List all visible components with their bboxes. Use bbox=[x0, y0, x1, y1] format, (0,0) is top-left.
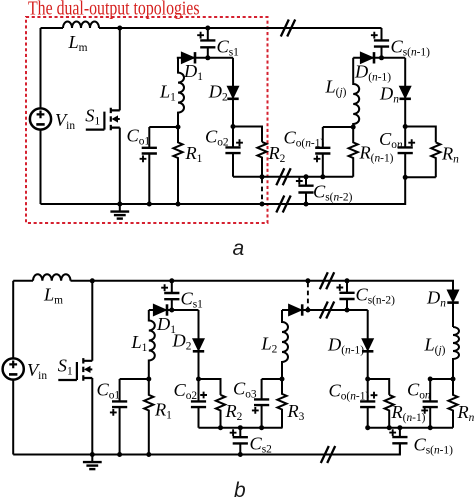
junction dot Co1 bottom a bbox=[147, 202, 152, 207]
junction dot stage n bottom a bbox=[403, 175, 408, 180]
junction dot Cs(n-2) bottom a bbox=[304, 202, 309, 207]
wire D2 top lead b bbox=[198, 310, 200, 339]
svg-text:D(n-1): D(n-1) bbox=[354, 62, 391, 84]
svg-text:D(n-1): D(n-1) bbox=[327, 335, 364, 357]
wire stage n bottom a bbox=[405, 176, 436, 178]
svg-text:b: b bbox=[234, 479, 246, 500]
wire S1 drain b bbox=[91, 281, 93, 361]
capacitor Co2 (b) bbox=[191, 379, 207, 428]
inductor Lm (a) bbox=[63, 22, 99, 28]
svg-text:D2: D2 bbox=[208, 82, 228, 104]
svg-text:Con: Con bbox=[407, 380, 431, 402]
capacitor Co(n-1) (b) bbox=[360, 379, 377, 428]
junction dot R1 bottom a bbox=[176, 202, 181, 207]
svg-text:R1: R1 bbox=[154, 400, 172, 422]
node dot stage2 output a bbox=[231, 124, 236, 129]
diode D(n-1) (a) bbox=[360, 52, 374, 63]
svg-text:The dual-output topologies: The dual-output topologies bbox=[28, 0, 200, 20]
svg-text:S1: S1 bbox=[58, 356, 73, 378]
svg-text:L1: L1 bbox=[131, 332, 148, 354]
wire top rail a (Lm to Cs(n-1) corner) bbox=[99, 27, 382, 29]
inductor L1 (a) bbox=[178, 58, 184, 127]
svg-text:S1: S1 bbox=[85, 106, 100, 128]
diode D1 (b) bbox=[153, 304, 167, 315]
capacitor Cs(n-1) (b) bbox=[389, 428, 407, 455]
junction dot Cs(n-2) bottom b bbox=[345, 308, 350, 313]
resistor R1 (a) bbox=[173, 127, 182, 204]
capacitor Co3 (b) bbox=[252, 379, 269, 428]
wire top rail b (Lm to Dn corner) bbox=[71, 281, 454, 290]
svg-text:Co(n-1): Co(n-1) bbox=[329, 381, 370, 403]
capacitor Cs2 (b) bbox=[230, 428, 248, 455]
capacitor Cs(n-1) (a) bbox=[371, 28, 389, 58]
svg-text:D1: D1 bbox=[183, 61, 203, 83]
diode D1 (a) bbox=[181, 52, 195, 63]
svg-text:Vin: Vin bbox=[55, 110, 75, 132]
svg-text:Co1: Co1 bbox=[97, 380, 121, 402]
diode D2 (b) bbox=[193, 339, 204, 352]
wire node1 to Co1 a bbox=[149, 126, 178, 128]
break symbol on bottom rail a bbox=[276, 196, 290, 213]
node dot stage1 output b bbox=[146, 377, 151, 382]
wire diode row stage3 b bbox=[282, 309, 368, 311]
node dot stage1 output a bbox=[176, 125, 181, 130]
svg-text:Lm: Lm bbox=[68, 32, 88, 54]
resistor R3 (b) bbox=[277, 379, 286, 428]
svg-text:R(n-1): R(n-1) bbox=[391, 402, 426, 424]
wire node(n-1) to Co(n-1) a bbox=[323, 126, 353, 128]
junction dot Cs(n-1) top b bbox=[397, 425, 402, 430]
capacitor Cs1 (b) bbox=[161, 281, 179, 310]
junction dot Con top b bbox=[428, 377, 433, 382]
diode D2 (a) bbox=[227, 86, 238, 99]
resistor Rn (b) bbox=[448, 379, 457, 428]
svg-text:Cs(n-1): Cs(n-1) bbox=[391, 37, 431, 59]
wire top rail a (Vin+ to Lm) bbox=[41, 27, 64, 29]
svg-text:R1: R1 bbox=[185, 143, 203, 165]
junction dot stage3 row b bbox=[305, 308, 310, 313]
junction dot R2 bottom a bbox=[260, 174, 265, 179]
wire Vin bottom lead a bbox=[40, 130, 42, 204]
resistor R(n-1) (a) bbox=[349, 127, 358, 177]
node dot Cs1 junction b bbox=[169, 278, 174, 283]
red dashed boundary box of the dual-output topologies bbox=[26, 17, 268, 223]
node dot stage n output b bbox=[451, 377, 456, 382]
svg-text:Cs1: Cs1 bbox=[181, 289, 204, 311]
wire node2 to R2 b bbox=[199, 379, 221, 395]
wire D(n-1) top lead b bbox=[367, 310, 369, 339]
svg-text:L2: L2 bbox=[261, 334, 278, 356]
svg-text:Co1: Co1 bbox=[127, 126, 151, 148]
ground symbol b bbox=[83, 455, 102, 470]
capacitor Cs(n-2) (a) bbox=[296, 177, 314, 204]
junction dot Co(n-1) bottom a bbox=[320, 174, 325, 179]
junction dot Cs(n-1) bottom a bbox=[379, 55, 384, 60]
svg-text:Co2: Co2 bbox=[205, 127, 229, 149]
wire node1 to Co1 b bbox=[120, 378, 149, 380]
break symbol on stage3 row b bbox=[320, 302, 334, 319]
node dot stage n output a bbox=[403, 124, 408, 129]
svg-text:L(j): L(j) bbox=[325, 77, 347, 99]
resistor R(n-1) (b) bbox=[385, 395, 394, 428]
wire Vin top lead b bbox=[12, 281, 14, 359]
ground symbol a bbox=[110, 204, 129, 219]
dashed link wire b bbox=[307, 283, 309, 309]
inductor L1 (b) bbox=[149, 310, 155, 379]
capacitor Co1 (b) bbox=[110, 379, 127, 455]
voltage source Vin (a) bbox=[30, 108, 51, 129]
junction dot Cs1 bottom b bbox=[169, 308, 174, 313]
capacitor Co1 (a) bbox=[140, 127, 157, 204]
svg-text:L1: L1 bbox=[159, 82, 176, 104]
break symbol on top rail b bbox=[320, 272, 334, 289]
node dot stage n-1 output a bbox=[351, 125, 356, 130]
junction dot Co(n-1) bottom b bbox=[365, 425, 370, 430]
svg-text:a: a bbox=[233, 237, 245, 260]
node dot stage3 output b bbox=[280, 377, 285, 382]
junction dot Cs2 bottom b bbox=[238, 452, 243, 457]
wire diode row stage1 b bbox=[149, 309, 199, 311]
wire stage n-1/n bottom b bbox=[368, 427, 453, 429]
capacitor Co2 (a) bbox=[225, 127, 243, 177]
svg-text:Dn: Dn bbox=[379, 84, 399, 106]
wire diode row stage n-1 a bbox=[353, 57, 405, 59]
wire Vin top lead a bbox=[40, 28, 42, 108]
junction dot Co1 bottom b bbox=[117, 452, 122, 457]
svg-text:Dn: Dn bbox=[426, 288, 446, 310]
svg-text:Co2: Co2 bbox=[174, 380, 198, 402]
switch S1 MOSFET (a) bbox=[86, 108, 120, 131]
junction dot dashed link bottom a bbox=[260, 202, 265, 207]
svg-text:D2: D2 bbox=[172, 331, 192, 353]
break symbol on top rail a bbox=[281, 20, 295, 37]
svg-text:Cs2: Cs2 bbox=[250, 434, 273, 456]
resistor R1 (b) bbox=[144, 379, 153, 455]
svg-text:Con: Con bbox=[379, 129, 403, 151]
diode Dn (a) bbox=[400, 86, 411, 99]
junction dot source-ground a bbox=[117, 202, 122, 207]
node dot drain junction a bbox=[117, 26, 122, 31]
wire bottom rail a bbox=[41, 177, 406, 204]
wire node2 to R2 a bbox=[233, 127, 262, 142]
resistor R2 (b) bbox=[216, 395, 225, 428]
switch S1 MOSFET (b) bbox=[58, 358, 92, 381]
capacitor Co(n-1) (a) bbox=[314, 127, 331, 177]
junction dot R2 bottom b bbox=[218, 425, 223, 430]
svg-text:R3: R3 bbox=[287, 401, 305, 423]
junction dot source-ground b bbox=[90, 452, 95, 457]
svg-text:R2: R2 bbox=[225, 401, 243, 423]
svg-text:Cs1: Cs1 bbox=[217, 37, 240, 59]
wire Dn top lead a bbox=[404, 58, 406, 86]
wire S1 drain a bbox=[119, 28, 121, 110]
node dot Cs1 junction a bbox=[205, 26, 210, 31]
wire D2 bottom lead b bbox=[198, 352, 200, 379]
svg-text:Lm: Lm bbox=[43, 285, 63, 307]
junction dot R(n-1) bottom b bbox=[387, 425, 392, 430]
svg-text:Rn: Rn bbox=[457, 402, 474, 424]
inductor L2 (b) bbox=[282, 310, 288, 379]
wire stage2-3 bottom b bbox=[199, 427, 283, 429]
node dot stage2 output b bbox=[196, 377, 201, 382]
wire S1 source a bbox=[119, 128, 121, 204]
capacitor Con (b) bbox=[421, 379, 438, 428]
diode D(n-1) (b) bbox=[362, 339, 373, 352]
break symbol on stage2 bottom wire a bbox=[276, 168, 290, 185]
diode stage3 (b) bbox=[289, 304, 303, 315]
wire node(n) to Con b bbox=[430, 378, 453, 380]
dashed link wire a bbox=[261, 179, 263, 203]
junction dot Cs(n-2) top a bbox=[304, 174, 309, 179]
wire S1 source b bbox=[91, 378, 93, 455]
break symbol on bottom rail b bbox=[321, 446, 335, 463]
wire D2 bottom lead a bbox=[232, 99, 234, 126]
junction dot Co3 bottom b bbox=[259, 425, 264, 430]
node dot Cs(n-2) top b bbox=[345, 278, 350, 283]
junction dot Con bottom b bbox=[428, 425, 433, 430]
node dot stage n-1 output b bbox=[365, 377, 370, 382]
svg-text:Co3: Co3 bbox=[233, 379, 257, 401]
wire D2 leads a bbox=[232, 58, 234, 86]
wire top rail b (Vin to Lm) bbox=[13, 280, 33, 282]
wire bottom rail b bbox=[13, 443, 400, 454]
wire D(n-1) bottom lead b bbox=[367, 352, 369, 379]
wire diode row stage1 a bbox=[177, 57, 233, 59]
capacitor Con (a) bbox=[398, 127, 416, 178]
svg-text:Cs(n-1): Cs(n-1) bbox=[414, 435, 454, 457]
voltage source Vin (b) bbox=[3, 358, 24, 379]
svg-text:Vin: Vin bbox=[27, 360, 47, 382]
node dot dashed link top b bbox=[305, 278, 310, 283]
svg-text:Rn: Rn bbox=[441, 144, 459, 166]
resistor Rn (a) bbox=[431, 142, 440, 177]
wire node3 to Co3 b bbox=[262, 378, 282, 380]
inductor Lm (b) bbox=[33, 274, 71, 280]
wire Dn bottom lead b bbox=[452, 303, 454, 327]
capacitor Cs(n-2) (b) bbox=[336, 281, 354, 310]
wire Vin bottom lead b bbox=[12, 380, 14, 455]
wire Dn bottom lead a bbox=[404, 99, 406, 126]
diode Dn (b) bbox=[447, 290, 458, 303]
svg-text:Cs(n-2): Cs(n-2) bbox=[356, 285, 396, 307]
capacitor Cs1 (a) bbox=[197, 28, 215, 58]
junction dot R1 bottom b bbox=[146, 452, 151, 457]
wire node(n) to Rn a bbox=[405, 127, 436, 143]
svg-text:Cs(n-2): Cs(n-2) bbox=[313, 182, 353, 204]
wire node(n-1) to R(n-1) b bbox=[368, 379, 390, 395]
node dot drain junction b bbox=[90, 278, 95, 283]
resistor R2 (a) bbox=[257, 142, 266, 177]
junction dot Cs1 bottom a bbox=[205, 55, 210, 60]
svg-text:Co(n-1): Co(n-1) bbox=[284, 128, 325, 150]
junction dot Cs2 top b bbox=[238, 425, 243, 430]
inductor L(j) (a) bbox=[353, 58, 359, 127]
svg-text:L(j): L(j) bbox=[424, 335, 446, 357]
inductor L(j) (b) bbox=[453, 327, 459, 379]
wire stage2 bottom to stage n-1 bottom a bbox=[233, 176, 353, 178]
